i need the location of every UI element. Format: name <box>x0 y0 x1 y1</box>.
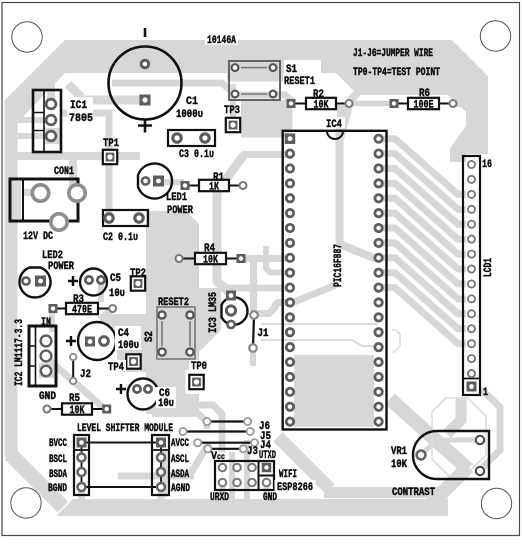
label C4 100u <box>115 326 141 352</box>
wire: ground plane left lobe around C4/TP4 <box>100 314 199 372</box>
labels BVCC BSCL BSDA BGND <box>48 438 67 495</box>
label IC4 / PIC16F887 <box>324 117 345 287</box>
svg-text:S2: S2 <box>144 331 156 342</box>
wire: outline trace octagon near VR1 <box>432 398 486 477</box>
mounting hole bottom-right <box>481 488 511 518</box>
microcontroller IC4 PIC16F887 (DIP-40) <box>283 131 387 430</box>
svg-text:WIFI: WIFI <box>279 469 297 481</box>
sensor IC3 LM35 <box>222 291 248 329</box>
svg-text:R6: R6 <box>419 88 430 100</box>
svg-text:16: 16 <box>482 159 492 171</box>
svg-text:AGND: AGND <box>171 483 190 495</box>
potentiometer VR1 <box>413 431 489 479</box>
capacitor C2 <box>103 210 148 226</box>
label TP4 <box>106 360 126 372</box>
svg-text:BGND: BGND <box>48 483 67 495</box>
wire: R3 right pad diagonal <box>100 309 112 320</box>
capacitor C6 <box>116 379 159 410</box>
wire: left bent trace from top band down left edge <box>5 40 66 457</box>
capacitor C5 <box>68 269 107 296</box>
svg-text:BSDA: BSDA <box>49 469 67 481</box>
svg-text:1: 1 <box>483 387 488 399</box>
label WIFI ESP8266 <box>275 467 316 494</box>
wire: R1 to R4 vertical trace to IC3 <box>217 155 244 295</box>
svg-text:TP2: TP2 <box>130 268 146 280</box>
mounting hole top-left <box>12 22 42 52</box>
label C1 1000u <box>176 96 203 121</box>
wire: J1 feed trace from R4 <box>243 259 286 312</box>
wire: corner elbow into LCD1 top <box>450 126 466 162</box>
jumper J2 <box>70 354 76 384</box>
wire: diagonal IC2 to R5 right pad <box>50 361 105 409</box>
svg-text:12V DC: 12V DC <box>23 231 53 243</box>
svg-text:7805: 7805 <box>69 113 93 125</box>
svg-text:IC2 LM1117-3.3: IC2 LM1117-3.3 <box>14 319 26 386</box>
resistor R1 <box>181 172 247 194</box>
test point TP2 <box>131 276 145 290</box>
svg-text:100E: 100E <box>414 100 434 112</box>
wire: gray patch left of IC4 pin1 <box>241 100 288 138</box>
svg-text:LM35: LM35 <box>208 292 220 312</box>
label IC1 7805 <box>67 97 93 125</box>
svg-text:IC1: IC1 <box>70 100 87 112</box>
wire: R6 right pad into band <box>453 99 468 107</box>
wire: wedge R2 pad to IC4 notch trace <box>337 105 353 140</box>
svg-text:J1-J6=JUMPER WIRE: J1-J6=JUMPER WIRE <box>353 48 433 60</box>
svg-text:100υ: 100υ <box>118 340 139 352</box>
LED1 <box>138 164 172 199</box>
svg-text:10υ: 10υ <box>158 398 174 410</box>
svg-text:ASDA: ASDA <box>171 469 189 481</box>
wire: IC1 pad stubs <box>16 120 46 136</box>
wire: TP1 down to C2 pad <box>106 150 113 218</box>
test point TP0 <box>186 370 209 394</box>
capacitor C1 <box>109 28 182 133</box>
label 16 / 1 / LCD1 <box>482 159 495 399</box>
resistor R3 <box>49 294 117 317</box>
wire: bottom ground band <box>56 499 448 516</box>
switch S1 RESET1 <box>229 61 280 100</box>
svg-text:POWER: POWER <box>48 261 74 273</box>
svg-text:R1: R1 <box>213 172 224 184</box>
connector LCD1 16-pin header <box>463 156 480 395</box>
svg-text:C3 0.1υ: C3 0.1υ <box>179 149 214 161</box>
module WIFI ESP8266 header <box>215 461 274 490</box>
resistor R6 <box>390 88 457 112</box>
mounting hole bottom-left <box>11 488 41 518</box>
svg-text:C4: C4 <box>118 328 129 340</box>
resistor R2 <box>287 89 353 112</box>
wire: trace into IC4 row1 <box>242 151 287 158</box>
test point TP3 <box>226 118 240 132</box>
svg-text:TP1: TP1 <box>103 138 119 150</box>
wire: vertical stub LCD1 pin16 feed <box>447 398 461 434</box>
label LED2 POWER <box>42 250 74 273</box>
wire: LED1 to R1 stub <box>160 179 184 185</box>
svg-text:VR1: VR1 <box>391 446 407 458</box>
wire: top power band <box>65 40 488 154</box>
wire: verticals behind WIFI header <box>223 440 267 500</box>
svg-text:R5: R5 <box>69 393 80 405</box>
jumper J6 <box>203 418 251 425</box>
LED2 <box>20 268 51 298</box>
svg-text:R3: R3 <box>73 294 84 306</box>
label CON1 / 12V DC <box>23 166 74 243</box>
wire: outline trace hexagon left of LCD <box>392 330 400 352</box>
mounting hole top-right <box>480 21 510 51</box>
regulator IC2 LM1117 <box>29 326 56 386</box>
svg-text:IC4: IC4 <box>326 119 342 131</box>
wire: gray square behind IC1 pad3 <box>44 128 60 144</box>
label RESET2 / S2 <box>144 297 189 342</box>
svg-text:10146A: 10146A <box>207 35 236 47</box>
label LED1 POWER <box>166 192 193 217</box>
svg-text:URXD: URXD <box>210 492 229 504</box>
svg-text:GND: GND <box>263 492 277 504</box>
svg-text:10υ: 10υ <box>109 288 125 300</box>
svg-text:BVCC: BVCC <box>49 438 67 450</box>
wire: thin trace across IC4 y=324 <box>261 323 378 325</box>
wire: CON1 to trace stub <box>69 152 77 196</box>
wire: horizontal trace y=100 to C1 square pad <box>68 84 143 100</box>
wire: ground plane by IC3 <box>199 288 221 352</box>
svg-text:UTXD: UTXD <box>259 450 276 462</box>
wire: BGND/AGND stubs to band <box>82 490 162 500</box>
label Vcc <box>211 451 225 463</box>
wire: C5 to R3 stub <box>98 284 104 302</box>
wire: band to IC1 pin diagonal <box>51 60 72 101</box>
jumper J4 <box>194 439 258 446</box>
svg-text:IC3: IC3 <box>208 317 220 333</box>
wire: thin trace across IC4 y=341 <box>261 340 378 346</box>
resistor R4 <box>176 243 246 267</box>
regulator IC1 <box>33 90 61 152</box>
switch S2 RESET2 <box>157 307 195 359</box>
svg-text:J3: J3 <box>247 446 258 458</box>
wire: R2 to R6 trace <box>353 101 391 107</box>
svg-text:CONTRAST: CONTRAST <box>392 487 435 499</box>
wire: trace into IC4 row y=302 and diagonal <box>256 285 336 314</box>
label LM35 / IC3 <box>208 292 220 333</box>
svg-text:C5: C5 <box>110 273 121 285</box>
label S1 RESET1 <box>284 64 315 88</box>
wire: diagonal from bottom band up to VR1 area <box>430 467 468 505</box>
wire: ground plane center slab <box>146 211 199 414</box>
svg-text:GND: GND <box>39 391 56 403</box>
wire: trace into IC4 row y=288 <box>222 285 286 292</box>
svg-text:POWER: POWER <box>167 205 193 217</box>
wire: TP3 stub to band <box>230 84 236 118</box>
wire: trace IC1 to TP1 feed <box>62 113 109 152</box>
wire: level shifter interconnect lines <box>87 443 157 488</box>
wire: narrow band below top band through C1 <box>112 83 292 101</box>
svg-text:LED1: LED1 <box>166 192 187 204</box>
svg-text:TP0-TP4=TEST POINT: TP0-TP4=TEST POINT <box>353 67 440 79</box>
wire: diagonal J4 area to left <box>118 443 209 476</box>
svg-text:BSCL: BSCL <box>49 454 67 466</box>
resistor R5 <box>44 393 112 417</box>
svg-text:RESET1: RESET1 <box>284 76 315 88</box>
svg-text:RESET2: RESET2 <box>158 297 189 309</box>
svg-text:10K: 10K <box>70 405 85 417</box>
capacitor C3 <box>168 130 215 146</box>
wire: bent traces TP0 area to WIFI Vcc <box>178 405 222 452</box>
wire: diagonal level-shifter to bottom band <box>278 437 330 489</box>
svg-text:R2: R2 <box>313 89 324 101</box>
svg-text:LEVEL SHIFTER MODULE: LEVEL SHIFTER MODULE <box>77 423 173 435</box>
svg-text:C2 0.1υ: C2 0.1υ <box>103 232 138 244</box>
svg-text:CON1: CON1 <box>54 166 74 178</box>
jumper J1 <box>249 311 258 352</box>
level shifter right header A-side <box>152 435 169 495</box>
wire: feed into IC4 row9 <box>266 246 286 273</box>
svg-text:10K: 10K <box>203 255 218 267</box>
svg-text:ESP8266: ESP8266 <box>277 482 313 494</box>
svg-text:IN: IN <box>41 317 51 329</box>
labels AVCC ASCL ASDA AGND <box>171 438 190 495</box>
svg-text:TP3: TP3 <box>224 105 240 117</box>
svg-text:TP4: TP4 <box>108 362 124 374</box>
svg-text:LCD1: LCD1 <box>483 258 495 277</box>
wire: IC4-to-LCD1 trace bundle <box>382 139 466 344</box>
connector CON1 (DC jack) <box>10 179 85 230</box>
wire: diagonal trace through VR1 from LCD area <box>390 399 468 469</box>
test point TP1 <box>103 150 117 164</box>
svg-text:TP0: TP0 <box>191 361 207 373</box>
label C5 10u <box>109 273 125 300</box>
svg-text:470E: 470E <box>72 305 92 317</box>
svg-text:S1: S1 <box>286 64 297 76</box>
svg-text:10K: 10K <box>314 100 329 112</box>
wire: R3 left pad stub down <box>49 312 55 332</box>
label C6 10u <box>156 387 176 410</box>
wire: bottom-left diagonal joining bottom band <box>10 454 63 507</box>
label 10146A <box>205 34 238 45</box>
wire: band to R2 right pad <box>349 92 358 102</box>
wire: TP0 stub <box>193 389 199 404</box>
wire: IC4 pin1 stub up <box>287 107 293 133</box>
wire: vertical stub right of LCD pin1 <box>481 389 500 467</box>
wire: stub below J1 <box>250 350 256 366</box>
wire: IC4 notch trace down inside <box>340 128 376 259</box>
svg-text:AVCC: AVCC <box>171 438 189 450</box>
svg-text:ASCL: ASCL <box>171 454 189 466</box>
svg-text:R4: R4 <box>204 243 215 255</box>
wire: VR1 internal trace <box>424 440 477 452</box>
svg-text:J2: J2 <box>80 369 91 381</box>
svg-text:PIC16F887: PIC16F887 <box>333 244 345 287</box>
wire: band extension under S1 <box>227 72 283 82</box>
test point TP4 <box>126 354 140 368</box>
svg-text:C1: C1 <box>186 96 198 108</box>
wire: vertical trace behind A-side header <box>161 450 168 497</box>
svg-text:1000υ: 1000υ <box>176 109 203 121</box>
wire: shelf joining diagonal to bottom band <box>324 487 448 498</box>
svg-text:cc: cc <box>217 453 225 462</box>
jumper J5 <box>179 428 253 435</box>
wire: horizontal trace y=156 with TP1 <box>14 152 140 160</box>
level shifter left header B-side <box>74 435 89 495</box>
label TP0 <box>189 360 209 372</box>
svg-text:10K: 10K <box>391 459 407 471</box>
label VR1 10K CONTRAST <box>391 446 435 499</box>
svg-text:J1: J1 <box>258 328 269 340</box>
capacitor C4 <box>66 322 116 360</box>
label IN / GND / IC2 LM1117-3.3 <box>14 317 56 403</box>
jumper J3 <box>204 445 247 452</box>
